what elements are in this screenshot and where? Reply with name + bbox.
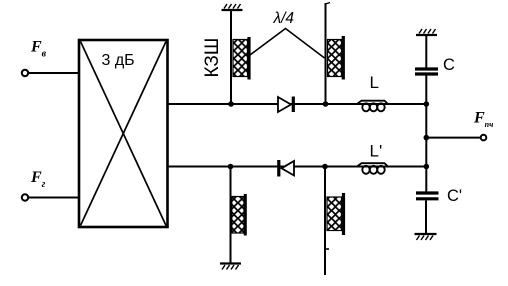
svg-text:λ/4: λ/4 [273, 10, 295, 27]
svg-text:L: L [370, 73, 379, 92]
svg-text:3 дБ: 3 дБ [102, 52, 135, 69]
svg-text:C: C [443, 56, 455, 74]
svg-text:L': L' [370, 142, 383, 161]
svg-text:КЗШ: КЗШ [202, 38, 223, 78]
svg-text:C': C' [447, 187, 462, 205]
